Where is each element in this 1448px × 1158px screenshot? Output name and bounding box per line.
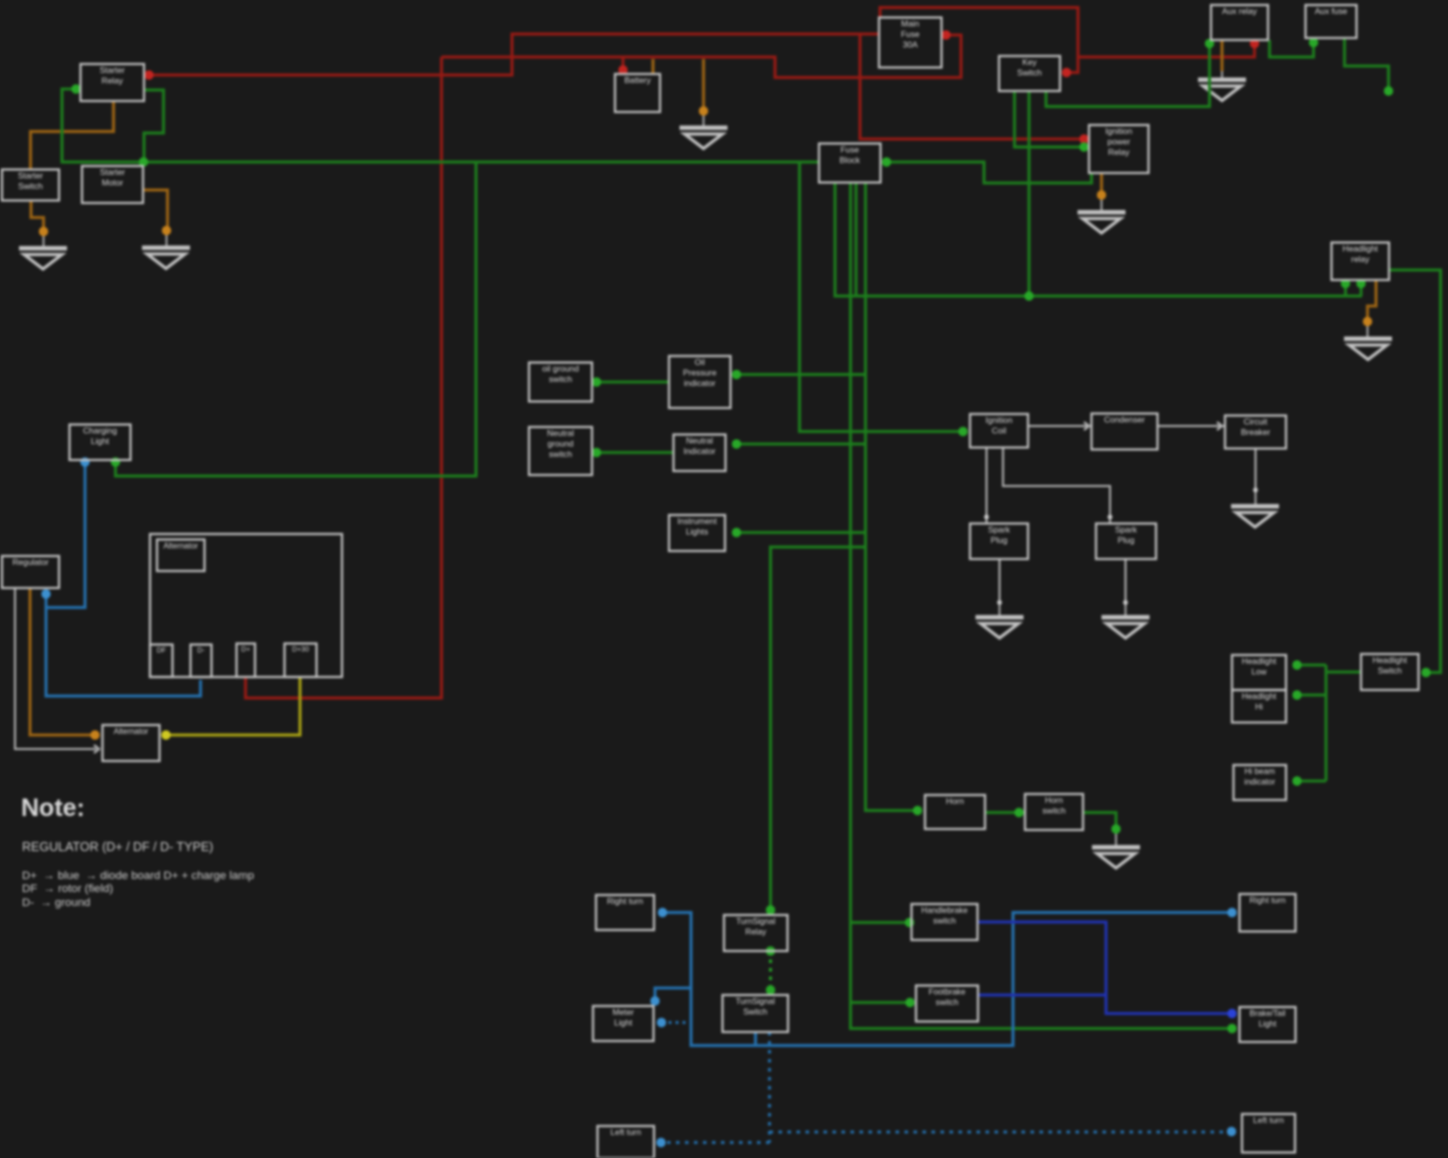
- svg-text:relay: relay: [1351, 254, 1370, 264]
- node main fuse right pin: [941, 30, 950, 39]
- wire orange starter-switch to ground: [31, 200, 44, 232]
- alternator label box: [157, 540, 205, 572]
- wire green key-switch pin1 to ignition-power-relay: [1015, 91, 1085, 147]
- node left turn left lamp pin: [656, 1138, 665, 1147]
- oil ground switch: [529, 363, 592, 402]
- svg-text:Alternator: Alternator: [114, 727, 149, 736]
- arrowhead white into condenser: [1084, 422, 1089, 430]
- wire green starter-relay right loop: [144, 90, 164, 162]
- svg-text:Oil: Oil: [695, 357, 705, 367]
- svg-text:Lights: Lights: [686, 527, 708, 537]
- neutral indicator: [674, 435, 726, 472]
- svg-text:Regulator: Regulator: [12, 557, 49, 567]
- svg-text:Fuse: Fuse: [901, 29, 920, 39]
- node spark plug 1 top dot: [984, 515, 989, 520]
- svg-text:switch: switch: [933, 917, 956, 926]
- alternator terminal DF: [150, 645, 173, 678]
- svg-text:Relay: Relay: [102, 76, 124, 86]
- node ignition power relay green pin: [1079, 142, 1088, 151]
- svg-text:Headlight: Headlight: [1372, 656, 1407, 665]
- node battery ground dot: [699, 106, 708, 115]
- svg-text:Low: Low: [1251, 668, 1266, 677]
- headlight switch: [1361, 654, 1419, 690]
- wire green aux-relay to aux-fuse: [1270, 40, 1314, 57]
- wire white condenser to circuit-breaker: [1158, 425, 1226, 427]
- svg-text:Switch: Switch: [743, 1008, 768, 1017]
- wire green branch hi-beam indicator: [1297, 780, 1326, 783]
- node turnsignal relay top pin: [766, 905, 775, 914]
- wire white coil to spark plug 1: [986, 448, 988, 524]
- wire blue dashed turnsignal-switch left-turn vertical: [768, 1032, 771, 1143]
- svg-text:Left turn: Left turn: [610, 1127, 641, 1137]
- node turnsignal switch top pin: [766, 985, 775, 994]
- oil pressure indicator: [669, 356, 731, 408]
- svg-text:D+ → blue → diode board D+ +: D+ → blue → diode board D+ + charge lamp: [22, 870, 254, 882]
- alternator terminal D+30: [285, 644, 317, 678]
- wire blue dashed meter-light link: [662, 1021, 692, 1024]
- svg-text:Horn: Horn: [1045, 795, 1063, 805]
- ground battery: [680, 126, 728, 149]
- node meter light right pin: [657, 1018, 666, 1027]
- node headlight hi pin: [1292, 690, 1301, 699]
- svg-text:Brake/Tail: Brake/Tail: [1250, 1009, 1286, 1018]
- svg-text:D+: D+: [241, 647, 250, 654]
- wire white spark plug 1 to ground: [999, 559, 1001, 603]
- svg-text:Right turn: Right turn: [607, 896, 644, 906]
- svg-text:Light: Light: [1259, 1020, 1277, 1029]
- wire green branch headlight low: [1297, 664, 1326, 667]
- svg-text:30A: 30A: [903, 40, 918, 50]
- svg-text:Key: Key: [1022, 57, 1037, 67]
- svg-text:switch: switch: [936, 998, 959, 1007]
- neutral ground switch: [529, 427, 592, 475]
- node headlight relay ground dot: [1363, 317, 1372, 326]
- node right turn right lamp pin: [1227, 908, 1236, 917]
- svg-text:Footbrake: Footbrake: [929, 988, 966, 997]
- svg-text:D-: D-: [197, 648, 205, 655]
- node key switch right pin: [1062, 68, 1071, 77]
- node headlight relay pin a: [1341, 279, 1350, 288]
- wire green branch headlight hi: [1297, 694, 1326, 697]
- wire orange battery bus ground drop: [702, 59, 705, 111]
- key switch: [999, 56, 1060, 91]
- wire green fuse pin4 to horn: [866, 183, 918, 811]
- node headlight relay pin b: [1356, 279, 1365, 288]
- wire white spark plug 2 to ground: [1125, 559, 1127, 603]
- wire gray regulator D- to rotor box: [15, 588, 96, 749]
- ignition power relay: [1089, 125, 1149, 173]
- node ignition coil green pin: [958, 427, 967, 436]
- wire green branch to neutral indicator: [737, 443, 866, 446]
- svg-text:Switch: Switch: [18, 181, 43, 191]
- svg-text:Relay: Relay: [1108, 147, 1130, 157]
- alternator terminal D-: [191, 645, 212, 678]
- wire red branch to aux relay: [1078, 43, 1255, 57]
- wire green headlight lamp bus: [1325, 665, 1328, 781]
- svg-text:Neutral: Neutral: [547, 428, 574, 438]
- node instrument lights pin: [732, 528, 741, 537]
- wire white coil to spark plug 2: [1003, 448, 1110, 524]
- headlight hi: [1232, 690, 1286, 723]
- battery: [615, 74, 660, 112]
- wire blue dashed to left-turn lamp right: [770, 1131, 1232, 1134]
- wire green main bus to fuse block: [144, 161, 820, 164]
- wire green branch to instrument lights: [737, 531, 866, 534]
- svg-text:Motor: Motor: [102, 178, 124, 188]
- ground starter motor: [142, 246, 190, 269]
- wire orange ignition-power-relay to ground: [1100, 173, 1103, 195]
- svg-text:Indicator: Indicator: [683, 446, 715, 456]
- condenser: [1092, 414, 1158, 450]
- svg-text:Neutral: Neutral: [686, 436, 713, 446]
- wire ground stem 2: [166, 231, 168, 246]
- wire navy handlebrake-switch to brake light: [978, 922, 1232, 1014]
- turnsignal switch: [723, 995, 789, 1032]
- svg-text:switch: switch: [549, 374, 573, 384]
- wire green dashed turnsignal relay to switch: [769, 951, 772, 990]
- node regulator blue pin: [41, 589, 50, 598]
- spark plug 1: [970, 524, 1028, 560]
- node key switch junction headlight line: [1024, 291, 1033, 300]
- node hi beam indicator pin: [1292, 776, 1301, 785]
- ground spark plug 1: [976, 615, 1024, 638]
- wire ground stem 9: [1255, 490, 1257, 504]
- aux fuse: [1306, 5, 1357, 38]
- ground spark plug 2: [1102, 615, 1150, 638]
- svg-text:Headlight: Headlight: [1242, 692, 1277, 701]
- svg-text:Switch: Switch: [1017, 68, 1042, 78]
- svg-text:Instrument: Instrument: [677, 516, 717, 526]
- wire ground stem 3: [703, 111, 705, 126]
- svg-text:Light: Light: [614, 1018, 633, 1028]
- node footbrake feed pin: [905, 998, 914, 1007]
- footbrake switch: [916, 986, 978, 1022]
- svg-text:Block: Block: [840, 155, 861, 165]
- svg-text:Hi beam: Hi beam: [1245, 767, 1276, 776]
- wire green fuse pin1 to headlight relay line: [835, 183, 1362, 297]
- node ignition relay ground dot: [1097, 190, 1106, 199]
- svg-text:Fuse: Fuse: [840, 145, 859, 155]
- handlebrake switch: [912, 904, 978, 940]
- node spark plug 2 top dot: [1108, 515, 1113, 520]
- svg-text:Headlight: Headlight: [1242, 657, 1277, 666]
- alternator housing: [150, 534, 342, 677]
- node starter switch ground dot: [39, 227, 48, 236]
- ground headlight relay: [1344, 337, 1392, 360]
- wire green headlight-relay to headlight-switch: [1389, 270, 1441, 673]
- charging light: [70, 425, 131, 461]
- node fuse block right pin: [882, 157, 891, 166]
- wire red battery positive stub: [622, 57, 625, 74]
- wire ground stem 8: [1125, 603, 1127, 616]
- arrowhead gray into rotor box: [94, 745, 99, 753]
- wire ground stem 4: [1101, 195, 1103, 210]
- svg-text:D+30: D+30: [292, 647, 309, 654]
- wire blue turnsignal-switch output stub: [754, 1032, 757, 1046]
- wire green starter-relay left loop: [62, 89, 144, 162]
- wire green oil-ground-switch to indicator: [597, 381, 670, 384]
- ground horn switch: [1092, 845, 1140, 868]
- main fuse 30A: [879, 18, 942, 68]
- node oil pressure indicator pin: [732, 370, 741, 379]
- svg-text:switch: switch: [1042, 806, 1066, 816]
- svg-text:Breaker: Breaker: [1241, 427, 1271, 437]
- wire green bus to ignition coil: [800, 162, 964, 432]
- spark plug 2: [1096, 524, 1156, 560]
- wire green branch to turnsignal relay: [771, 547, 866, 910]
- svg-text:Plug: Plug: [1118, 535, 1135, 545]
- wire navy footbrake-switch branch: [979, 994, 1107, 997]
- node horn right pin: [1014, 808, 1023, 817]
- aux relay: [1211, 5, 1268, 40]
- node starter relay green pin: [71, 84, 80, 93]
- node aux fuse output end: [1384, 86, 1393, 95]
- wire white circuit-breaker to ground: [1255, 449, 1257, 491]
- fuse block: [819, 144, 881, 183]
- node aux relay red pin: [1250, 39, 1259, 48]
- wire ground stem 5: [1221, 71, 1223, 78]
- svg-text:indicator: indicator: [1244, 778, 1275, 787]
- node turnsignal relay bottom pin: [766, 946, 775, 955]
- node horn left pin: [913, 806, 922, 815]
- wire green branch to oil pressure indicator: [737, 373, 866, 376]
- wire green key-switch pin3 to aux relay: [1046, 44, 1210, 107]
- svg-text:Spark: Spark: [988, 525, 1011, 535]
- horn switch: [1025, 794, 1083, 830]
- ground circuit breaker: [1231, 504, 1279, 527]
- wire ground stem 7: [999, 603, 1001, 616]
- node charging light blue pin: [80, 457, 89, 466]
- svg-text:Plug: Plug: [991, 535, 1008, 545]
- svg-text:Switch: Switch: [1378, 667, 1403, 676]
- wire green fuse pin2 to brake circuits: [851, 183, 1233, 1029]
- wire orange aux-relay to ground: [1221, 40, 1224, 71]
- wire green headlight-relay pin stub 2: [1360, 284, 1363, 296]
- wire brown regulator DF to rotor: [30, 588, 93, 735]
- wire green horn to horn-switch: [985, 811, 1025, 814]
- ignition coil: [970, 414, 1028, 448]
- node spark plug 1 ground dot: [997, 600, 1002, 605]
- wire red starter-relay to main-fuse left pin: [149, 34, 879, 75]
- wire green horn-switch to ground: [1083, 813, 1116, 830]
- svg-text:oil ground: oil ground: [542, 364, 579, 374]
- svg-text:power: power: [1107, 137, 1130, 147]
- node neutral ground switch pin: [592, 448, 601, 457]
- regulator: [2, 556, 59, 588]
- svg-text:switch: switch: [549, 449, 573, 459]
- brake tail light: [1240, 1007, 1296, 1042]
- svg-text:Battery: Battery: [624, 75, 651, 85]
- svg-text:Note:: Note:: [21, 794, 85, 822]
- wire red main-fuse right pin loop to battery bus: [442, 35, 962, 78]
- node ignition power relay red pin: [1079, 134, 1088, 143]
- node oil ground switch pin: [592, 377, 601, 386]
- svg-text:Starter: Starter: [18, 171, 43, 181]
- wire green branch to handlebrake switch: [851, 921, 910, 924]
- svg-text:Right turn: Right turn: [1249, 895, 1286, 905]
- starter relay: [81, 64, 145, 101]
- node meter light top pin: [650, 996, 659, 1005]
- note text block: [21, 794, 254, 909]
- wire green charging-light branch: [116, 162, 477, 476]
- node rotor box orange pin: [90, 730, 99, 739]
- ground aux relay: [1198, 78, 1246, 101]
- svg-text:Alternator: Alternator: [163, 542, 198, 551]
- node starter motor ground dot: [162, 226, 171, 235]
- node circuit breaker ground dot: [1253, 488, 1258, 493]
- left turn lamp left: [598, 1126, 655, 1158]
- rotor box: [103, 725, 160, 761]
- wire ground stem 10: [1115, 829, 1117, 845]
- wire green fuse-block to ignition-power-relay: [887, 162, 1092, 183]
- svg-text:Main: Main: [901, 19, 919, 29]
- node rotor box yellow pin: [161, 730, 170, 739]
- svg-text:Hi: Hi: [1255, 703, 1263, 712]
- wire orange starter-motor to ground: [143, 190, 168, 231]
- svg-text:Ignition: Ignition: [1105, 126, 1132, 136]
- circuit breaker: [1225, 416, 1286, 449]
- wire orange starter-relay to starter-switch: [31, 101, 114, 170]
- svg-text:REGULATOR (D+ / DF / D- TYPE): REGULATOR (D+ / DF / D- TYPE): [22, 840, 213, 854]
- node right turn left lamp pin: [658, 908, 667, 917]
- horn: [925, 795, 985, 829]
- node horn switch ground dot: [1111, 824, 1120, 833]
- wire red branch main to ignition-power-relay: [860, 34, 1084, 139]
- svg-text:Left turn: Left turn: [1253, 1115, 1284, 1125]
- svg-text:Pressure: Pressure: [683, 368, 717, 378]
- wire blue regulator D+ vertical: [46, 594, 201, 696]
- ground ignition power relay: [1078, 210, 1126, 233]
- node charging light green pin: [111, 457, 120, 466]
- ground starter switch: [19, 246, 67, 269]
- svg-text:DF → rotor (field): DF → rotor (field): [22, 883, 113, 895]
- wire blue meter-light upper link: [655, 988, 691, 1001]
- svg-text:D- → ground: D- → ground: [22, 897, 90, 909]
- headlight relay: [1332, 243, 1390, 281]
- svg-text:Horn: Horn: [946, 796, 964, 806]
- wire green key-switch pin2 to headlight line: [1028, 91, 1031, 296]
- wire ground stem 1: [43, 232, 45, 247]
- wire red long vertical to alternator D+: [246, 57, 442, 698]
- wire orange battery negative: [652, 59, 655, 74]
- wire ground stem 6: [1367, 322, 1369, 337]
- wire green fuse pin3 stub to headlight line: [855, 183, 858, 297]
- left turn lamp right: [1242, 1114, 1295, 1153]
- node spark plug 2 ground dot: [1123, 600, 1128, 605]
- instrument lights: [669, 515, 725, 551]
- svg-text:Circuit: Circuit: [1244, 417, 1268, 427]
- svg-text:Headlight: Headlight: [1343, 244, 1379, 254]
- wire white ignition-coil to condenser: [1028, 425, 1092, 427]
- wire yellow alternator D+30 to rotor box: [166, 677, 300, 735]
- wire green branch to footbrake switch: [851, 1001, 911, 1004]
- meter light: [593, 1006, 654, 1041]
- hi beam indicator: [1234, 765, 1287, 800]
- svg-text:Ignition: Ignition: [985, 415, 1012, 425]
- wire blue right-turn lamp feed left: [663, 913, 1233, 1046]
- wire blue dashed to left-turn lamp left: [661, 1141, 770, 1144]
- alternator terminal D+: [237, 644, 256, 678]
- svg-text:indicator: indicator: [684, 378, 716, 388]
- svg-text:Meter: Meter: [613, 1007, 635, 1017]
- node green bus junction at starter motor: [139, 157, 148, 166]
- arrowhead white into circuit breaker: [1217, 422, 1222, 430]
- node battery positive: [618, 65, 627, 74]
- svg-text:ground: ground: [547, 439, 573, 449]
- wire orange headlight-relay to ground: [1368, 280, 1377, 322]
- right turn lamp left: [596, 895, 654, 930]
- svg-text:TurnSignal: TurnSignal: [736, 917, 775, 926]
- node headlight switch right pin: [1421, 668, 1430, 677]
- svg-text:Light: Light: [91, 436, 110, 446]
- svg-text:Coil: Coil: [992, 426, 1007, 436]
- node left turn right lamp pin: [1227, 1127, 1236, 1136]
- wire red key-switch to top bus: [880, 8, 1078, 73]
- wire green headlight-switch to lamps vertical: [1326, 671, 1361, 674]
- node aux fuse left pin: [1309, 38, 1318, 47]
- wire green headlight-relay pin stub 1: [1344, 284, 1347, 296]
- svg-text:Condenser: Condenser: [1104, 415, 1145, 425]
- right turn lamp right: [1240, 894, 1296, 932]
- svg-text:TurnSignal: TurnSignal: [736, 997, 775, 1006]
- node handlebrake feed pin: [905, 918, 914, 927]
- starter switch: [2, 170, 59, 201]
- wire blue charging-light to regulator and alternator D-: [46, 462, 85, 608]
- node starter relay red pin: [144, 70, 153, 79]
- node brake light green pin: [1227, 1024, 1236, 1033]
- svg-text:Aux fuse: Aux fuse: [1315, 6, 1348, 16]
- node headlight low pin: [1292, 660, 1301, 669]
- svg-text:Starter: Starter: [100, 167, 125, 177]
- svg-text:Handlebrake: Handlebrake: [921, 906, 968, 915]
- svg-text:DF: DF: [157, 648, 166, 655]
- svg-text:Aux relay: Aux relay: [1222, 6, 1258, 16]
- node aux relay green pin: [1205, 39, 1214, 48]
- svg-text:Starter: Starter: [100, 65, 125, 75]
- node neutral indicator pin: [732, 439, 741, 448]
- node brake light navy pin: [1227, 1009, 1236, 1018]
- headlight low: [1232, 655, 1286, 690]
- svg-text:Charging: Charging: [83, 426, 117, 436]
- svg-text:Relay: Relay: [745, 928, 767, 937]
- wire green aux-fuse output: [1345, 39, 1389, 91]
- wire green neutral-ground-switch to indicator: [597, 451, 674, 454]
- starter motor: [82, 166, 143, 203]
- turnsignal relay: [724, 915, 788, 951]
- svg-text:Spark: Spark: [1115, 525, 1138, 535]
